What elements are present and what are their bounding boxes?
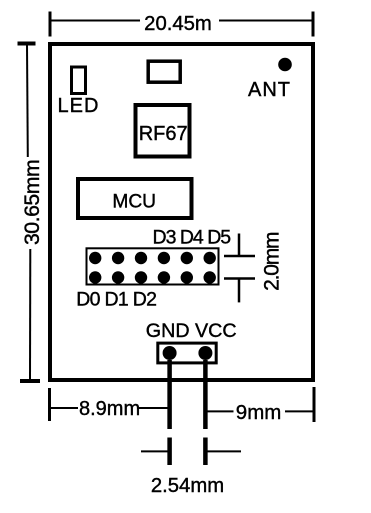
dimension label 20.45m (144, 13, 212, 35)
svg-text:D3 D4 D5: D3 D4 D5 (153, 227, 232, 249)
dimension 2.0mm top tick (224, 255, 255, 258)
dimension 8.9mm left tick (48, 388, 51, 421)
GND pad (163, 346, 177, 360)
svg-text:ANT: ANT (248, 79, 291, 101)
label RF67 (139, 123, 188, 145)
label ANT (248, 79, 291, 101)
dimension 8.9mm line left segment (50, 407, 79, 409)
dimension label 8.9mm (79, 398, 140, 420)
dimension 2.0mm bottom tick (224, 277, 255, 280)
crystal/component rectangle top middle (148, 61, 180, 82)
svg-text:9mm: 9mm (236, 401, 282, 424)
dimension 20.45m right extension tick (312, 12, 315, 37)
svg-text:2.54mm: 2.54mm (151, 475, 224, 497)
dimension 9mm line right segment (285, 410, 314, 412)
LED component body (72, 67, 86, 94)
board outline (50, 44, 313, 380)
dimension 2.0mm line lower segment (238, 279, 241, 303)
dimension 2.54mm left extension line (167, 438, 172, 466)
dimension 8.9mm line right segment (137, 407, 170, 409)
dimension 9mm line left segment (205, 410, 233, 412)
svg-text:8.9mm: 8.9mm (79, 398, 140, 420)
VCC lead wire (203, 360, 208, 429)
dimension label 9mm (236, 401, 282, 424)
label LED (58, 95, 100, 117)
dimension 9mm right tick (313, 387, 316, 422)
power connector J2 body (158, 343, 216, 363)
dimension 2.54mm line left segment (141, 450, 168, 452)
header pin row top (D5..D3 side) (89, 252, 216, 264)
svg-text:LED: LED (58, 95, 100, 117)
svg-text:30.65mm: 30.65mm (20, 160, 44, 245)
MCU chip (78, 179, 192, 218)
dimension 30.65mm bottom tick (20, 379, 40, 383)
dimension 2.54mm right extension line (203, 438, 208, 466)
RF67 chip U-RF (136, 105, 190, 157)
VCC pad (198, 346, 212, 360)
label D3 D4 D5 (153, 227, 232, 249)
header pin row bottom (D0..D2 side) (89, 271, 216, 283)
dimension label 30.65mm (rotated) (20, 160, 44, 245)
GND lead wire (167, 360, 172, 429)
svg-text:2.0mm: 2.0mm (260, 232, 283, 291)
svg-text:20.45m: 20.45m (144, 13, 212, 35)
label MCU (112, 192, 156, 213)
dimension label 2.0mm (rotated) (260, 232, 283, 291)
dimension 2.0mm line upper segment (238, 234, 241, 257)
dimension 30.65mm top tick (18, 42, 36, 46)
ANT antenna pad dot (278, 58, 292, 72)
svg-text:MCU: MCU (112, 192, 156, 213)
dimension label 2.54mm (151, 475, 224, 497)
dimension 2.54mm line right segment (208, 450, 242, 452)
label GND VCC (146, 320, 237, 342)
dimension 30.65mm line lower segment (29, 249, 31, 379)
dimension 20.45m line right segment (219, 20, 313, 22)
label D0 D1 D2 (76, 289, 156, 311)
dimension 20.45m line left segment (50, 20, 140, 22)
svg-text:GND VCC: GND VCC (146, 320, 237, 342)
dimension 30.65mm line upper segment (26, 45, 29, 157)
header connector J1 body (87, 248, 219, 284)
svg-text:D0 D1 D2: D0 D1 D2 (76, 289, 156, 311)
dimension 20.45m left extension tick (49, 12, 52, 37)
svg-text:RF67: RF67 (139, 123, 188, 145)
